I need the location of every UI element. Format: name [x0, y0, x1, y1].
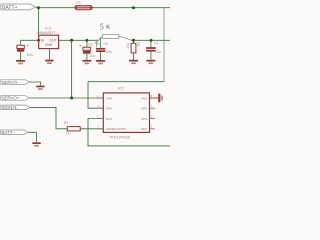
wire SERVO+ / VDD net: [29, 97, 103, 99]
wire C2 top leg: [86, 40, 88, 47]
wire BATT+ right-edge drop: [163, 8, 165, 82]
svg-text:GP3/MCLR/VPP: GP3/MCLR/VPP: [106, 127, 126, 131]
ground IC1 GND pin: [45, 60, 53, 64]
capacitor C3 10n: [96, 42, 112, 54]
svg-text:OUT: OUT: [50, 38, 57, 42]
svg-text:2: 2: [97, 104, 99, 108]
svg-text:10u: 10u: [27, 53, 33, 57]
wire R1 to pin4: [80, 128, 103, 130]
node junction regulator IN: [37, 39, 40, 42]
svg-text:SERVO-: SERVO-: [2, 80, 19, 85]
microcontroller IC2 PIC12F629: [97, 85, 155, 139]
ground C4 ground: [146, 60, 155, 64]
svg-text:10k: 10k: [126, 43, 130, 49]
svg-text:F1: F1: [77, 1, 81, 5]
svg-text:GP2: GP2: [141, 127, 147, 131]
wire branch to GP5 column: [88, 81, 164, 83]
connector flag BATT-: [1, 130, 28, 135]
pencil annotation 5k value: [99, 20, 111, 31]
pencil resistor sketch: [97, 34, 132, 41]
pin 8 VSS: [150, 97, 156, 99]
svg-text:GND: GND: [45, 43, 53, 47]
svg-text:8: 8: [151, 94, 153, 98]
node junction SERVO+ VDD: [70, 96, 73, 99]
resistor R1 1k: [64, 121, 80, 136]
node junction top rail: [132, 6, 135, 9]
svg-text:5: 5: [151, 125, 153, 129]
svg-text:+: +: [26, 43, 29, 48]
wire 5V rail left segment: [59, 39, 99, 41]
node junction C4: [150, 39, 153, 42]
svg-text:+: +: [79, 43, 82, 48]
pin 3 GP4: [97, 118, 103, 120]
svg-text:C3: C3: [103, 42, 108, 46]
voltage regulator IC1 L4940/5DT: [37, 25, 59, 59]
svg-text:10n: 10n: [155, 50, 161, 54]
pin 6 GP1: [150, 118, 156, 120]
wire C2 bottom leg: [86, 54, 88, 60]
svg-text:C4: C4: [154, 41, 159, 45]
svg-text:VDD: VDD: [106, 96, 113, 100]
pin 4 GP3/MCLR/VPP: [97, 128, 103, 130]
capacitor C1 10u: [17, 43, 33, 57]
svg-text:C2: C2: [88, 43, 92, 47]
pin 7 GP0: [150, 107, 156, 109]
wire BATT+ drop to regulator input: [38, 8, 40, 41]
svg-text:GP4: GP4: [106, 117, 112, 121]
svg-text:κ: κ: [105, 20, 111, 31]
ground C3 ground: [96, 60, 105, 64]
node junction R2: [132, 39, 135, 42]
wire C4 top leg: [150, 40, 152, 47]
wire C3 bottom leg: [100, 52, 102, 60]
svg-text:22u: 22u: [89, 54, 95, 58]
svg-text:R2: R2: [137, 42, 141, 46]
svg-text:4: 4: [97, 125, 99, 129]
ground SERVO- ground: [36, 86, 44, 90]
svg-text:1: 1: [97, 94, 99, 98]
connector flag SERVO+: [1, 96, 29, 101]
ground C2 ground: [82, 60, 91, 64]
pin 2 GP5: [97, 107, 103, 109]
fuse F1: [75, 1, 92, 10]
wire R2 bottom leg: [133, 53, 135, 60]
resistor R2 10k: [126, 42, 141, 53]
wire C4 bottom leg: [150, 52, 152, 60]
capacitor C4 10n: [146, 41, 161, 54]
svg-text:R1: R1: [64, 121, 69, 125]
wire 5V rail right segment: [131, 39, 170, 41]
wire C1 bottom leg: [20, 52, 22, 60]
connector flag SIGNAL: [1, 105, 30, 110]
wire BATT+ top rail: [36, 7, 170, 9]
svg-text:1k: 1k: [66, 132, 70, 136]
svg-text:L4940/5DT: L4940/5DT: [37, 30, 57, 35]
wire SIGNAL to R1: [30, 107, 67, 128]
wire SERVO- stub to ground: [29, 82, 40, 86]
wire C1 top leg: [20, 40, 22, 45]
svg-text:SIGNAL: SIGNAL: [2, 105, 19, 110]
svg-text:SERVO+: SERVO+: [2, 96, 20, 101]
svg-text:GP1: GP1: [141, 117, 147, 121]
wire BATT- stub to ground: [28, 132, 37, 142]
connector flag BATT+: [1, 4, 36, 11]
node junction C2: [85, 39, 88, 42]
node junction BATT+ flag: [37, 6, 40, 9]
wire C3 top leg: [100, 37, 102, 48]
svg-text:IC2: IC2: [118, 85, 124, 90]
capacitor C2 22u: [79, 43, 95, 58]
svg-text:PIC12F629: PIC12F629: [110, 135, 131, 140]
svg-text:7: 7: [151, 104, 153, 108]
pencil cut mark: [95, 40, 100, 48]
ground C1 ground: [16, 60, 25, 64]
svg-text:BATT+: BATT+: [2, 5, 18, 11]
svg-text:VSS: VSS: [141, 96, 147, 100]
wire input branch to C1: [21, 39, 39, 41]
node junction 5V takeoff: [70, 39, 73, 42]
svg-text:GP5: GP5: [106, 107, 112, 111]
pin 5 GP2: [150, 128, 156, 130]
wire 5V drop to VDD and SERVO+: [71, 40, 73, 98]
svg-text:IN: IN: [41, 38, 45, 42]
svg-text:3: 3: [97, 114, 99, 118]
svg-text:5: 5: [99, 22, 104, 31]
ground VSS pin sideways: [155, 94, 163, 103]
ground BATT- ground: [32, 142, 40, 146]
wire R2 top leg: [133, 40, 135, 43]
svg-text:10n: 10n: [106, 50, 112, 54]
ground R2 ground: [129, 60, 138, 64]
pin 1 VDD: [97, 97, 103, 99]
connector flag SERVO-: [1, 80, 29, 85]
svg-text:GP0: GP0: [141, 107, 147, 111]
svg-text:6: 6: [151, 114, 153, 118]
wire GP5 column down to pin2: [88, 82, 103, 109]
svg-text:BATT-: BATT-: [2, 130, 15, 135]
wire pin3 net down and right: [88, 119, 170, 146]
